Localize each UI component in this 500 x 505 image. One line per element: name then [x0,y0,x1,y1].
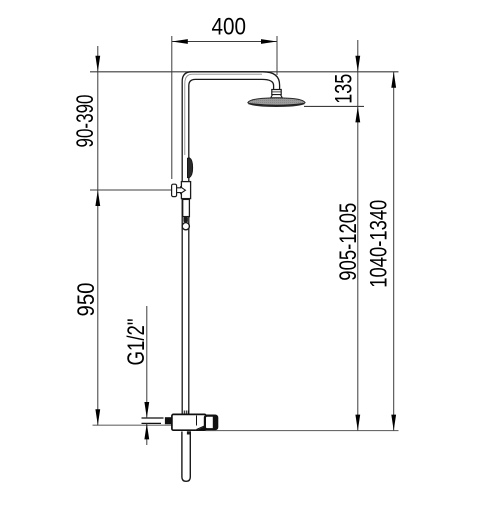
holder wall bracket [172,184,177,196]
label 135 [331,74,358,104]
arrow up tip at top line outer [391,72,396,88]
G1/2 stub line lower [142,422,162,424]
dimension 400 extension line right [276,36,278,75]
hose top nub [187,431,191,434]
arrow down tip at valve left line [95,409,100,425]
svg-text:135: 135 [331,74,358,104]
svg-text:G1/2": G1/2" [123,319,150,366]
arrow down tip at top arm line right [355,56,360,72]
svg-text:90-390: 90-390 [72,95,99,148]
arm elbow to head [262,72,280,90]
shower head disc [248,98,305,107]
G1/2 stub line upper [142,417,164,419]
arrow up tip at stub lower [144,423,149,439]
arrow down tip at top arm line [95,56,100,72]
arrow down tip at stub upper [144,402,149,418]
extension line: valve left reference [93,424,173,426]
holder funnel arm [177,187,186,194]
svg-text:1040-1340: 1040-1340 [366,200,393,288]
valve inlet nub G1/2 [165,417,172,424]
G1/2 leader line [146,306,148,445]
arrow right tip 400 [261,39,277,44]
svg-text:950: 950 [73,283,100,317]
arrow up tip at holder line [95,190,100,206]
extension line: top of arm reference [90,71,399,73]
dimension line right inner (135 / 905-1205) [357,40,359,431]
label 950 [73,283,100,317]
svg-text:400: 400 [212,14,247,41]
label G1/2" [123,319,150,366]
extension line: valve right reference [206,430,399,432]
outlet hose below valve [182,432,190,482]
label 90-390 [72,95,99,148]
label 905-1205 [335,203,362,281]
valve handle [205,416,217,430]
arrow up tip at head line [355,106,360,122]
extension line: holder reference [90,189,172,191]
dimension line left (90-390 / 950) [97,46,99,425]
dimension 400 extension line left [171,36,173,179]
arrow down tip at valve right line outer [391,415,396,431]
hand shower head edge-on [187,158,192,178]
arrow down tip at valve right line inner [355,415,360,431]
extension line: shower head bottom reference [304,105,364,107]
holder body [181,182,190,199]
label 400 [212,14,247,41]
handle dark nub [183,217,188,223]
head connector cone [271,95,283,98]
shower column pipe [182,72,263,414]
dimension line right outer (1040-1340) [393,72,395,431]
head connector nut [272,90,281,95]
hand shower handle [183,199,190,216]
arrow left tip 400 [172,39,188,44]
svg-text:905-1205: 905-1205 [335,203,362,281]
hose ball joint [182,223,189,230]
pipe-valve junction ticks [184,411,188,414]
dimension 400 line [172,41,277,43]
valve body [172,414,206,430]
label 1040-1340 [366,200,393,288]
